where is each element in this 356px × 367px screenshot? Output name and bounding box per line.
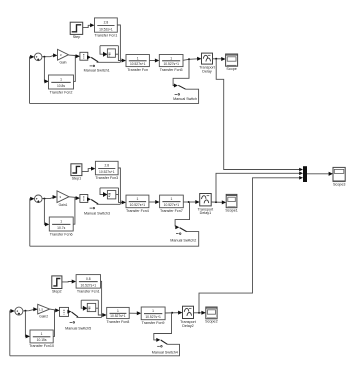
transfer-fcn TF2 (1/10.8s): [49, 75, 74, 89]
node scope tap row2: [215, 201, 217, 203]
switch lever Manual Switch1: [91, 57, 98, 62]
svg-text:10.8s: 10.8s: [57, 84, 65, 88]
svg-text:1: 1: [60, 78, 62, 82]
svg-text:10.527s+1: 10.527s+1: [81, 283, 97, 287]
svg-text:10.15s: 10.15s: [37, 338, 47, 342]
svg-text:10.527s+1: 10.527s+1: [110, 314, 126, 318]
svg-text:Transfer Fcn4: Transfer Fcn4: [126, 209, 149, 213]
svg-text:1.5: 1.5: [39, 307, 44, 311]
wire feedback down from node row2: [175, 202, 189, 226]
transport-delay Transport Delay1: [200, 194, 212, 206]
svg-text:1: 1: [60, 220, 62, 224]
svg-text:10.527s+1: 10.527s+1: [99, 170, 115, 174]
svg-text:Transfer Fcn7: Transfer Fcn7: [160, 209, 183, 213]
wire sum to gain: [42, 56, 53, 57]
gain Gain (3): [58, 49, 69, 60]
wire TF2 out up to gain line: [74, 56, 76, 82]
sum junction Sum: [34, 53, 42, 61]
svg-text:Transfer Fcn3: Transfer Fcn3: [95, 176, 118, 180]
switch lever Manual Switch5: [72, 312, 79, 317]
svg-text:1: 1: [136, 197, 138, 201]
wire small block out: [87, 55, 91, 59]
svg-text:Transfer Fcn: Transfer Fcn: [127, 68, 148, 72]
node feedback tap row2: [188, 201, 190, 203]
wire TF to TF5: [149, 60, 155, 62]
svg-text:Manual Switch3: Manual Switch3: [84, 211, 110, 215]
node sum1-out tap: [43, 198, 45, 200]
wire TD1 to Scope1: [211, 201, 222, 203]
scope Scope1: [226, 194, 237, 207]
scope Scope: [226, 54, 238, 66]
svg-text:10.527s+1: 10.527s+1: [130, 62, 146, 66]
transfer-fcn TF7 (1/10.527s+1): [160, 195, 184, 208]
svg-text:Manual Switch: Manual Switch: [173, 97, 197, 101]
gain Gain2 (1.5): [38, 304, 50, 314]
wire TF8 down to switch node: [101, 281, 102, 317]
svg-text:Manual Switch1: Manual Switch1: [84, 69, 110, 73]
transfer-fcn TF3 (2.8/10.527s+1): [95, 161, 118, 175]
node scope tap row3: [198, 312, 200, 314]
wire small block out row3: [67, 310, 71, 314]
transfer-fcn TF10 (1/10.15s): [30, 330, 53, 343]
wire TD2 to Scope2: [194, 312, 203, 314]
svg-text:Scope: Scope: [226, 67, 236, 71]
wire mux to Scope3: [307, 173, 329, 175]
wire feedback down from node row3: [154, 313, 172, 340]
transport-delay Transport Delay2: [183, 306, 194, 318]
wire tap down to TF10: [24, 311, 27, 337]
wire row1 to mux: [216, 59, 299, 170]
node scope tap row1: [215, 58, 217, 60]
sum junction Sum1: [35, 195, 43, 203]
wire sum1 to gain1: [42, 197, 53, 198]
svg-text:1: 1: [137, 56, 139, 60]
wire tap down to TF2: [43, 57, 46, 82]
wire TD to Scope: [213, 58, 222, 60]
wire step1 to TF3: [82, 169, 92, 172]
source Step2: [52, 276, 62, 289]
svg-text:Manual Switch4: Manual Switch4: [152, 350, 178, 354]
wire feedback down from node: [173, 59, 189, 85]
svg-text:Transfer Fcn6: Transfer Fcn6: [50, 232, 73, 236]
wire small block out row2: [87, 197, 91, 201]
svg-text:Gain1: Gain1: [59, 203, 68, 207]
scope Scope2: [206, 307, 217, 319]
wire tap down to TF6: [44, 199, 45, 225]
wire TF10 out up to gain2 line: [53, 310, 54, 337]
block ManualSwitch5 selector: [60, 307, 69, 316]
svg-text:10.7s: 10.7s: [57, 226, 65, 230]
wire TF1 down to switch node: [117, 25, 120, 62]
svg-text:Scope1: Scope1: [225, 209, 238, 213]
svg-text:Transfer Fcn1: Transfer Fcn1: [77, 289, 100, 293]
svg-text:Step2: Step2: [52, 289, 62, 293]
svg-text:Scope2: Scope2: [205, 320, 218, 324]
transfer-fcn TF1 (2.8/10.52s+1): [95, 18, 118, 32]
wire feedback loop row1: [30, 89, 199, 103]
transport-delay Transport Delay: [202, 53, 213, 64]
svg-text:2.8: 2.8: [104, 21, 109, 25]
transfer-fcn TF8b (1/10.527s+1): [107, 307, 130, 318]
wire row2 to mux: [216, 173, 300, 202]
wire feedback into sum: [30, 57, 31, 104]
wire row3 to mux: [199, 178, 300, 313]
toggle indicator Manual Switch5: [70, 321, 73, 323]
source Step1: [71, 164, 82, 176]
memory block loop (Manual Switch1 upper): [100, 45, 118, 47]
wire switch base: [97, 61, 121, 63]
svg-text:Transfer Fcn1: Transfer Fcn1: [94, 34, 117, 38]
toggle indicator Manual Switch4: [157, 345, 160, 347]
svg-text:1: 1: [117, 309, 119, 313]
wire switch base row3: [77, 316, 102, 318]
block ManualSwitch1 selector: [80, 52, 88, 60]
wire feedback into sum1: [30, 199, 31, 246]
transfer-fcn TF8 (0.8/10.527s+1): [76, 275, 100, 289]
transfer-fcn TF6 (1/10.7s): [49, 217, 73, 231]
node feedback tap row1: [188, 58, 190, 60]
svg-text:1: 1: [41, 332, 43, 336]
svg-text:Manual Switch2: Manual Switch2: [170, 238, 196, 242]
svg-text:10.527s+1: 10.527s+1: [164, 203, 180, 207]
svg-text:10.527s+1: 10.527s+1: [145, 315, 161, 319]
wire sum2 to gain2: [23, 310, 34, 311]
node sum-out tap: [43, 56, 45, 58]
svg-text:Delay1: Delay1: [200, 211, 211, 215]
wire gain2 out to small block: [50, 309, 56, 310]
block ManualSwitch3 selector: [80, 195, 88, 203]
svg-text:2.8: 2.8: [105, 164, 110, 168]
svg-text:Manual Switch5: Manual Switch5: [65, 327, 91, 331]
svg-text:Scope3: Scope3: [333, 183, 346, 187]
svg-text:1: 1: [170, 197, 172, 201]
svg-text:Transfer Fcn2: Transfer Fcn2: [50, 90, 73, 94]
svg-text:10.527s+1: 10.527s+1: [130, 203, 146, 207]
toggle indicator Manual Switch: [175, 93, 178, 95]
svg-text:Delay2: Delay2: [182, 324, 193, 328]
wire feedback into sum2: [10, 311, 11, 356]
svg-text:0.8: 0.8: [86, 277, 91, 281]
svg-text:Transfer Fcn9: Transfer Fcn9: [142, 321, 165, 325]
scope Scope3: [333, 167, 345, 181]
toggle indicator Manual Switch1: [90, 65, 93, 67]
memory block loop (Manual Switch3 upper): [100, 187, 119, 189]
wire step2 to TF8: [62, 281, 72, 283]
transfer-fcn TF5 (1/10.527s+1): [159, 55, 183, 67]
memory block loop (Manual Switch5 upper): [81, 299, 98, 301]
svg-text:10.52s+1: 10.52s+1: [99, 27, 113, 31]
transfer-fcn TF9 (1/10.527s+1): [141, 307, 165, 320]
wire TF3 down to switch node: [118, 168, 120, 204]
switch lever Manual Switch4: [161, 340, 168, 344]
transfer-fcn TF4 (1/10.527s+1): [126, 195, 149, 208]
svg-text:Transfer Fcn8: Transfer Fcn8: [106, 320, 129, 324]
svg-text:1: 1: [170, 56, 172, 60]
transfer-fcn TF (1/10.527s+1): [126, 55, 149, 67]
svg-text:Transfer Fcn5: Transfer Fcn5: [160, 68, 183, 72]
svg-text:Gain: Gain: [60, 61, 67, 65]
svg-text:Step1: Step1: [72, 176, 82, 180]
wire feedback loop row3: [10, 344, 180, 356]
wire TF6 out up to gain1 line: [73, 197, 75, 224]
source Step: [70, 22, 83, 34]
svg-text:Gain2: Gain2: [39, 314, 48, 318]
switch lever Manual Switch3: [91, 200, 98, 205]
node feedback tap row3: [171, 312, 173, 314]
wire feedback loop row2: [30, 232, 199, 247]
toggle indicator Manual Switch2: [176, 233, 179, 235]
wire TF7 to Transport Delay1: [183, 201, 196, 203]
svg-text:1: 1: [152, 309, 154, 313]
wire switch base row2: [97, 203, 121, 205]
svg-text:Transfer Fcn10: Transfer Fcn10: [29, 344, 54, 348]
svg-text:10.527s+1: 10.527s+1: [163, 62, 179, 66]
wire gain out to small block: [69, 54, 77, 57]
sum junction Sum2: [15, 307, 23, 315]
wire TF5 to Transport Delay: [183, 59, 198, 61]
switch lever Manual Switch: [178, 85, 185, 89]
wire step to TF1: [83, 25, 91, 27]
mux Mux: [303, 166, 307, 182]
wire TF9 to Transport Delay2: [165, 312, 179, 314]
wire TF8b to TF9: [129, 312, 137, 314]
switch lever Manual Switch2: [180, 228, 187, 232]
svg-text:Delay: Delay: [202, 69, 212, 73]
wire gain1 out to small block: [69, 197, 76, 198]
node sum2-out tap: [24, 310, 26, 312]
svg-text:Step: Step: [73, 35, 81, 39]
gain Gain1: [57, 191, 69, 203]
toggle indicator Manual Switch3: [90, 207, 93, 209]
wire TF4 to TF7: [149, 201, 156, 203]
